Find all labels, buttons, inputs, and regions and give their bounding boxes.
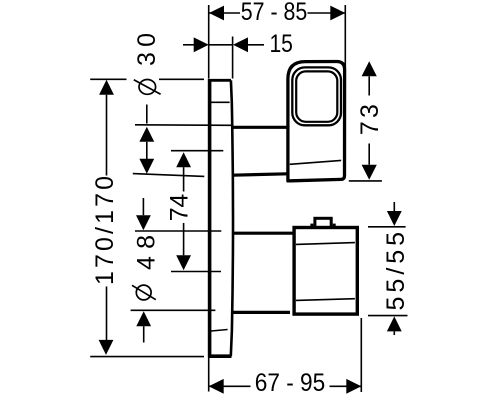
svg-text:15: 15 [269,30,293,58]
svg-text:57 - 85: 57 - 85 [241,0,308,26]
svg-text:67 - 95: 67 - 95 [255,369,326,397]
svg-text:55/55: 55/55 [382,232,410,311]
svg-text:74: 74 [166,194,194,222]
